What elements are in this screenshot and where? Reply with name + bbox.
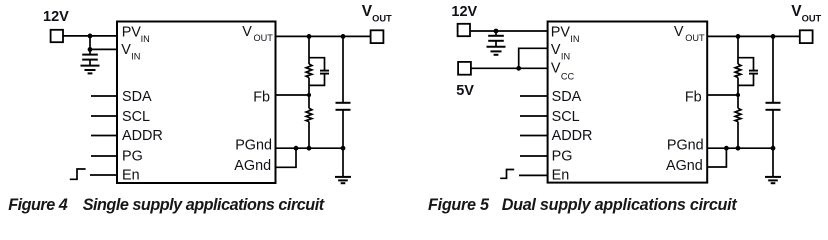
pin stub SDA (Fig 5) bbox=[520, 95, 548, 97]
node AGnd/PGnd (Fig 5) bbox=[724, 146, 729, 151]
IC U1 (Fig 4) bbox=[117, 22, 276, 184]
feedforward capacitor C2 (parallel with R1) bbox=[309, 58, 325, 70]
node AGnd/PGnd (Fig 4) bbox=[294, 146, 299, 151]
svg-text:PG: PG bbox=[122, 149, 143, 165]
output capacitor Cout (Fig 4) bbox=[342, 36, 344, 102]
svg-text:IN: IN bbox=[141, 34, 150, 44]
pin stub En bbox=[90, 174, 117, 176]
svg-text:SDA: SDA bbox=[122, 89, 152, 105]
node VIN junction (Fig 4) bbox=[88, 47, 93, 52]
pin stub SCL bbox=[91, 115, 117, 117]
node VOUT/divider (Fig 5) bbox=[736, 34, 741, 39]
IC U1 (Fig 5) bbox=[548, 22, 708, 183]
svg-text:Figure 5: Figure 5 bbox=[428, 196, 490, 214]
wire VIN node to VIN pin bbox=[90, 48, 117, 50]
node divider/PGnd (Fig 5) bbox=[736, 146, 741, 151]
wire Fb pin to divider node (Fig 5) bbox=[707, 94, 738, 96]
svg-text:ADDR: ADDR bbox=[122, 128, 163, 144]
node VOUT/divider (Fig 4) bbox=[307, 34, 312, 39]
ground (input bypass, Fig4) bbox=[81, 65, 100, 67]
svg-text:Fb: Fb bbox=[685, 90, 702, 106]
supply terminal square 5V bbox=[458, 62, 471, 75]
enable step waveform (Fig 4) bbox=[70, 169, 86, 179]
svg-text:IN: IN bbox=[131, 51, 140, 61]
svg-text:AGnd: AGnd bbox=[234, 158, 271, 174]
svg-text:Fb: Fb bbox=[253, 90, 270, 106]
node Fb (Fig 5) bbox=[736, 93, 740, 97]
svg-text:En: En bbox=[122, 168, 140, 184]
node Cout/ground (Fig 5) bbox=[771, 146, 776, 151]
svg-text:12V: 12V bbox=[43, 9, 69, 25]
wire PGnd rail (Fig 5) bbox=[707, 147, 773, 149]
svg-text:Dual supply applications circu: Dual supply applications circuit bbox=[502, 196, 738, 214]
node divider/PGnd (Fig 4) bbox=[307, 146, 312, 151]
svg-text:V: V bbox=[242, 24, 252, 40]
wire 5V to VCC pin bbox=[472, 67, 548, 69]
svg-text:ADDR: ADDR bbox=[552, 128, 593, 144]
svg-text:SCL: SCL bbox=[552, 109, 580, 125]
svg-text:IN: IN bbox=[570, 34, 579, 44]
feedback resistor R2 (bottom) bbox=[308, 95, 310, 108]
svg-text:OUT: OUT bbox=[802, 14, 822, 24]
svg-text:AGnd: AGnd bbox=[666, 158, 703, 174]
wire tap PVIN node down to VIN node bbox=[89, 36, 91, 50]
svg-text:OUT: OUT bbox=[254, 33, 274, 43]
pin stub ADDR (Fig 5) bbox=[520, 135, 548, 137]
pin stub SDA bbox=[91, 95, 117, 97]
ground (output, Fig 5) bbox=[772, 148, 774, 176]
wire VOUT pin to output terminal bbox=[276, 35, 371, 37]
feedback resistor R2 (Fig 5) bbox=[737, 95, 739, 108]
svg-text:5V: 5V bbox=[456, 83, 474, 99]
feedforward capacitor C2 (Fig 5) bbox=[738, 58, 754, 70]
feedback resistor R1 (Fig 5) bbox=[737, 36, 739, 64]
wire 12V to PVIN pin (Fig 5) bbox=[471, 30, 548, 32]
output capacitor Cout (Fig 5) bbox=[772, 36, 774, 102]
node PVIN junction (Fig 5) bbox=[494, 29, 499, 34]
svg-text:12V: 12V bbox=[451, 4, 477, 20]
svg-text:Single supply applications cir: Single supply applications circuit bbox=[83, 196, 325, 214]
wire Fb pin to divider node bbox=[276, 94, 310, 96]
pin stub SCL (Fig 5) bbox=[520, 115, 548, 117]
pin stub PG (Fig 5) bbox=[520, 155, 548, 157]
wire AGnd to PGnd rail (Fig 5) bbox=[707, 148, 726, 167]
wire PGnd rail bbox=[276, 147, 344, 149]
svg-text:OUT: OUT bbox=[372, 13, 392, 23]
pin stub En (Fig 5) bbox=[519, 174, 548, 176]
output terminal square VOUT (Fig 4) bbox=[371, 30, 384, 43]
svg-text:PG: PG bbox=[552, 149, 573, 165]
supply terminal square 12V bbox=[51, 30, 63, 42]
node VOUT/Cout (Fig 4) bbox=[341, 34, 346, 39]
node PVIN junction (Fig 4) bbox=[88, 34, 93, 39]
svg-text:SDA: SDA bbox=[552, 89, 582, 105]
wire AGnd to PGnd rail bbox=[276, 148, 297, 167]
svg-text:PGnd: PGnd bbox=[235, 138, 272, 154]
node VOUT/Cout (Fig 5) bbox=[771, 34, 776, 39]
enable step waveform (Fig 5) bbox=[500, 170, 514, 179]
node VCC junction (Fig 5) bbox=[516, 66, 521, 71]
input bypass capacitor C1 (Fig 5) bbox=[495, 31, 497, 36]
svg-text:IN: IN bbox=[561, 51, 570, 61]
ground (output, Fig 4) bbox=[342, 148, 344, 176]
svg-text:V: V bbox=[551, 42, 561, 58]
svg-text:PV: PV bbox=[122, 24, 142, 40]
ground (input bypass, Fig 5) bbox=[487, 46, 506, 48]
feedback resistor R1 (top) bbox=[308, 36, 310, 64]
output terminal square VOUT (Fig 5) bbox=[800, 30, 813, 43]
pin stub PG bbox=[91, 155, 117, 157]
input bypass capacitor C1 bbox=[89, 49, 91, 54]
wire VOUT pin to output terminal (Fig 5) bbox=[707, 35, 799, 37]
node Cout/ground (Fig 4) bbox=[341, 146, 346, 151]
supply terminal square 12V (Fig 5) bbox=[458, 24, 470, 36]
svg-text:V: V bbox=[551, 61, 561, 77]
svg-text:En: En bbox=[552, 168, 570, 184]
svg-text:Figure 4: Figure 4 bbox=[8, 196, 68, 214]
wire tap 5V node up to VIN pin bbox=[519, 48, 548, 68]
svg-text:PGnd: PGnd bbox=[667, 138, 704, 154]
wire 12V to PVIN pin bbox=[64, 35, 118, 37]
svg-text:CC: CC bbox=[561, 71, 575, 81]
node Fb (Fig 4) bbox=[307, 93, 311, 97]
svg-text:SCL: SCL bbox=[122, 109, 150, 125]
svg-text:V: V bbox=[674, 24, 684, 40]
svg-text:V: V bbox=[121, 42, 131, 58]
svg-text:PV: PV bbox=[551, 24, 571, 40]
pin stub ADDR bbox=[91, 135, 117, 137]
svg-text:OUT: OUT bbox=[685, 33, 705, 43]
